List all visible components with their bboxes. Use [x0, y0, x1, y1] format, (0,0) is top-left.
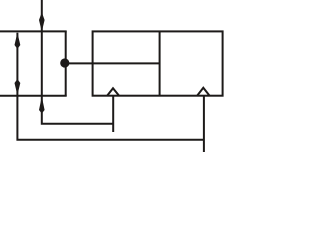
wire: mid horizontal line from junction dot into right block [65, 62, 160, 64]
wire: top horizontal line left (valve envelope top edge, runs off left image edge) [0, 30, 67, 32]
valve envelope right block: centre divider [159, 31, 161, 95]
seat symbol: open caret on bottom edge (left cell of right block) [107, 88, 119, 96]
arrowhead: down arrow of double-arrow line at bottom envelope edge [15, 79, 21, 95]
wire: drain stub below left caret (dangling) [112, 96, 114, 132]
arrowhead: up arrow at top of double-arrow line [15, 33, 21, 50]
wire: pilot line (vertical from top edge, down left side of cell, then right to drain stub) [42, 0, 113, 124]
seat symbol: open caret on bottom edge (right cell of right block) [197, 88, 210, 96]
wire: tank line below right caret (runs off bottom image edge) [203, 96, 205, 152]
arrowhead: down arrow on pilot line at top edge of envelope [39, 12, 45, 32]
valve envelope left cell: right edge [65, 31, 67, 95]
wire: bottom horizontal line left (valve envelope bottom edge, runs off left image edge) [0, 95, 67, 97]
wire: variable-adjust line (vertical double-arrow at far left, then right along bottom to tank line) [17, 33, 204, 140]
arrowhead: up arrow on pilot line below bottom edge of envelope [39, 97, 45, 114]
valve envelope right block (two-cell rectangle) [93, 31, 223, 95]
junction dot on left envelope right edge [60, 58, 69, 67]
